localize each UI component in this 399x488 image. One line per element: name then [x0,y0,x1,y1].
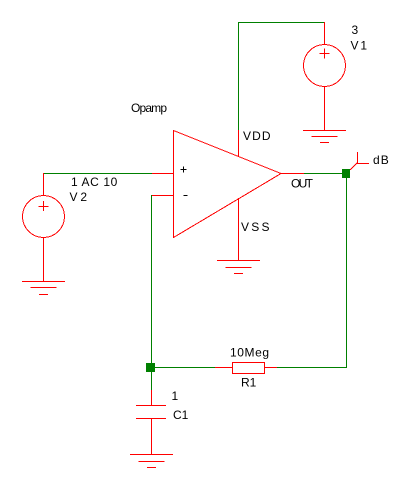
svg-text:10Meg: 10Meg [230,345,269,359]
svg-text:1 AC 10: 1 AC 10 [71,175,118,189]
svg-text:V2: V2 [70,190,88,204]
svg-text:3: 3 [352,23,359,37]
svg-text:R1: R1 [241,375,257,389]
svg-text:dB: dB [373,153,389,167]
svg-text:Opamp: Opamp [131,101,167,115]
svg-text:VSS: VSS [241,220,270,234]
svg-text:C1: C1 [173,408,189,422]
svg-text:OUT: OUT [291,177,314,191]
svg-text:V1: V1 [351,38,368,52]
svg-text:1: 1 [172,389,179,403]
svg-text:VDD: VDD [243,129,271,143]
